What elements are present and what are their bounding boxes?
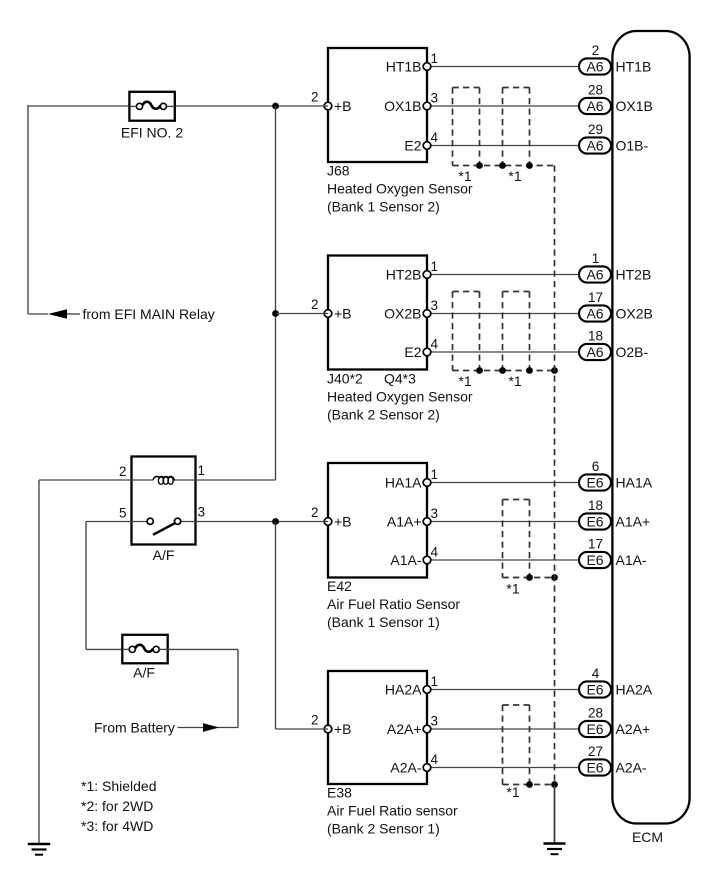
svg-text:(Bank 2 Sensor 2): (Bank 2 Sensor 2) <box>327 406 440 422</box>
svg-text:A6: A6 <box>586 58 603 74</box>
svg-text:HA1A: HA1A <box>385 474 422 490</box>
svg-text:Heated Oxygen Sensor: Heated Oxygen Sensor <box>327 388 473 404</box>
svg-text:E6: E6 <box>586 474 603 490</box>
svg-text:Air Fuel Ratio Sensor: Air Fuel Ratio Sensor <box>327 596 460 612</box>
svg-text:E6: E6 <box>586 681 603 697</box>
svg-text:4: 4 <box>431 130 439 145</box>
svg-text:OX2B: OX2B <box>616 305 653 321</box>
svg-text:6: 6 <box>592 459 600 474</box>
svg-text:HA1A: HA1A <box>616 474 653 490</box>
svg-text:from EFI MAIN Relay: from EFI MAIN Relay <box>83 306 215 322</box>
svg-text:J40*2: J40*2 <box>327 370 363 386</box>
svg-text:28: 28 <box>588 706 603 721</box>
svg-text:2: 2 <box>311 90 319 105</box>
svg-text:2: 2 <box>119 464 127 479</box>
svg-text:3: 3 <box>431 298 439 313</box>
svg-text:HT1B: HT1B <box>386 58 422 74</box>
svg-text:E38: E38 <box>327 784 352 800</box>
svg-text:1: 1 <box>592 251 600 266</box>
svg-text:29: 29 <box>588 122 603 137</box>
svg-text:OX1B: OX1B <box>616 98 653 114</box>
svg-text:2: 2 <box>311 297 319 312</box>
svg-text:*1: Shielded: *1: Shielded <box>81 778 157 794</box>
svg-text:HT2B: HT2B <box>386 266 422 282</box>
svg-text:Air Fuel Ratio sensor: Air Fuel Ratio sensor <box>327 802 458 818</box>
svg-text:E2: E2 <box>404 344 421 360</box>
svg-text:(Bank 1 Sensor 1): (Bank 1 Sensor 1) <box>327 614 440 630</box>
svg-text:+B: +B <box>334 721 352 737</box>
svg-text:HA2A: HA2A <box>385 681 422 697</box>
svg-text:A1A+: A1A+ <box>387 513 422 529</box>
svg-text:A1A-: A1A- <box>390 552 421 568</box>
svg-text:A2A+: A2A+ <box>616 721 651 737</box>
svg-text:OX2B: OX2B <box>384 305 421 321</box>
svg-text:A6: A6 <box>586 305 603 321</box>
svg-text:A/F: A/F <box>153 547 175 563</box>
svg-text:A6: A6 <box>586 98 603 114</box>
svg-text:4: 4 <box>592 666 600 681</box>
svg-text:1: 1 <box>431 259 439 274</box>
svg-text:E6: E6 <box>586 721 603 737</box>
svg-text:Q4*3: Q4*3 <box>384 370 416 386</box>
svg-text:O2B-: O2B- <box>616 344 649 360</box>
svg-text:*1: *1 <box>506 784 519 800</box>
svg-text:From Battery: From Battery <box>94 719 175 735</box>
svg-text:E6: E6 <box>586 513 603 529</box>
svg-text:4: 4 <box>431 752 439 767</box>
svg-text:2: 2 <box>311 505 319 520</box>
svg-text:27: 27 <box>588 744 603 759</box>
svg-text:28: 28 <box>588 83 603 98</box>
svg-text:*1: *1 <box>458 373 471 389</box>
svg-text:17: 17 <box>588 290 603 305</box>
svg-text:A6: A6 <box>586 344 603 360</box>
svg-text:+B: +B <box>334 513 352 529</box>
svg-text:*3: for 4WD: *3: for 4WD <box>81 818 153 834</box>
svg-text:3: 3 <box>431 90 439 105</box>
svg-text:5: 5 <box>119 506 127 521</box>
svg-text:A1A-: A1A- <box>616 552 647 568</box>
svg-text:*1: *1 <box>506 581 519 597</box>
svg-text:E2: E2 <box>404 137 421 153</box>
svg-text:A1A+: A1A+ <box>616 513 651 529</box>
svg-text:+B: +B <box>334 98 352 114</box>
svg-text:3: 3 <box>431 713 439 728</box>
svg-text:A2A-: A2A- <box>390 759 421 775</box>
svg-text:*1: *1 <box>508 168 521 184</box>
svg-text:OX1B: OX1B <box>384 98 421 114</box>
svg-text:A6: A6 <box>586 137 603 153</box>
svg-text:18: 18 <box>588 498 603 513</box>
svg-text:1: 1 <box>431 51 439 66</box>
svg-text:3: 3 <box>198 505 206 520</box>
svg-text:ECM: ECM <box>632 829 663 845</box>
svg-text:1: 1 <box>198 463 206 478</box>
svg-text:HA2A: HA2A <box>616 681 653 697</box>
svg-text:O1B-: O1B- <box>616 137 649 153</box>
svg-text:E6: E6 <box>586 552 603 568</box>
svg-text:1: 1 <box>431 674 439 689</box>
svg-text:*2: for 2WD: *2: for 2WD <box>81 798 153 814</box>
svg-text:A2A-: A2A- <box>616 759 647 775</box>
svg-text:HT2B: HT2B <box>616 266 652 282</box>
svg-text:17: 17 <box>588 537 603 552</box>
svg-text:2: 2 <box>592 43 600 58</box>
svg-text:A6: A6 <box>586 266 603 282</box>
svg-text:4: 4 <box>431 544 439 559</box>
svg-text:Heated Oxygen Sensor: Heated Oxygen Sensor <box>327 180 473 196</box>
svg-text:2: 2 <box>311 713 319 728</box>
svg-text:4: 4 <box>431 336 439 351</box>
svg-text:E6: E6 <box>586 759 603 775</box>
svg-text:+B: +B <box>334 305 352 321</box>
svg-text:J68: J68 <box>327 162 350 178</box>
svg-text:(Bank 1 Sensor 2): (Bank 1 Sensor 2) <box>327 198 440 214</box>
svg-text:E42: E42 <box>327 578 352 594</box>
svg-text:(Bank 2 Sensor 1): (Bank 2 Sensor 1) <box>327 820 440 836</box>
svg-text:18: 18 <box>588 329 603 344</box>
svg-text:1: 1 <box>431 467 439 482</box>
svg-text:HT1B: HT1B <box>616 58 652 74</box>
svg-text:A/F: A/F <box>133 665 155 681</box>
svg-text:3: 3 <box>431 506 439 521</box>
svg-text:A2A+: A2A+ <box>387 721 422 737</box>
svg-text:*1: *1 <box>508 373 521 389</box>
svg-text:EFI NO. 2: EFI NO. 2 <box>121 125 183 141</box>
